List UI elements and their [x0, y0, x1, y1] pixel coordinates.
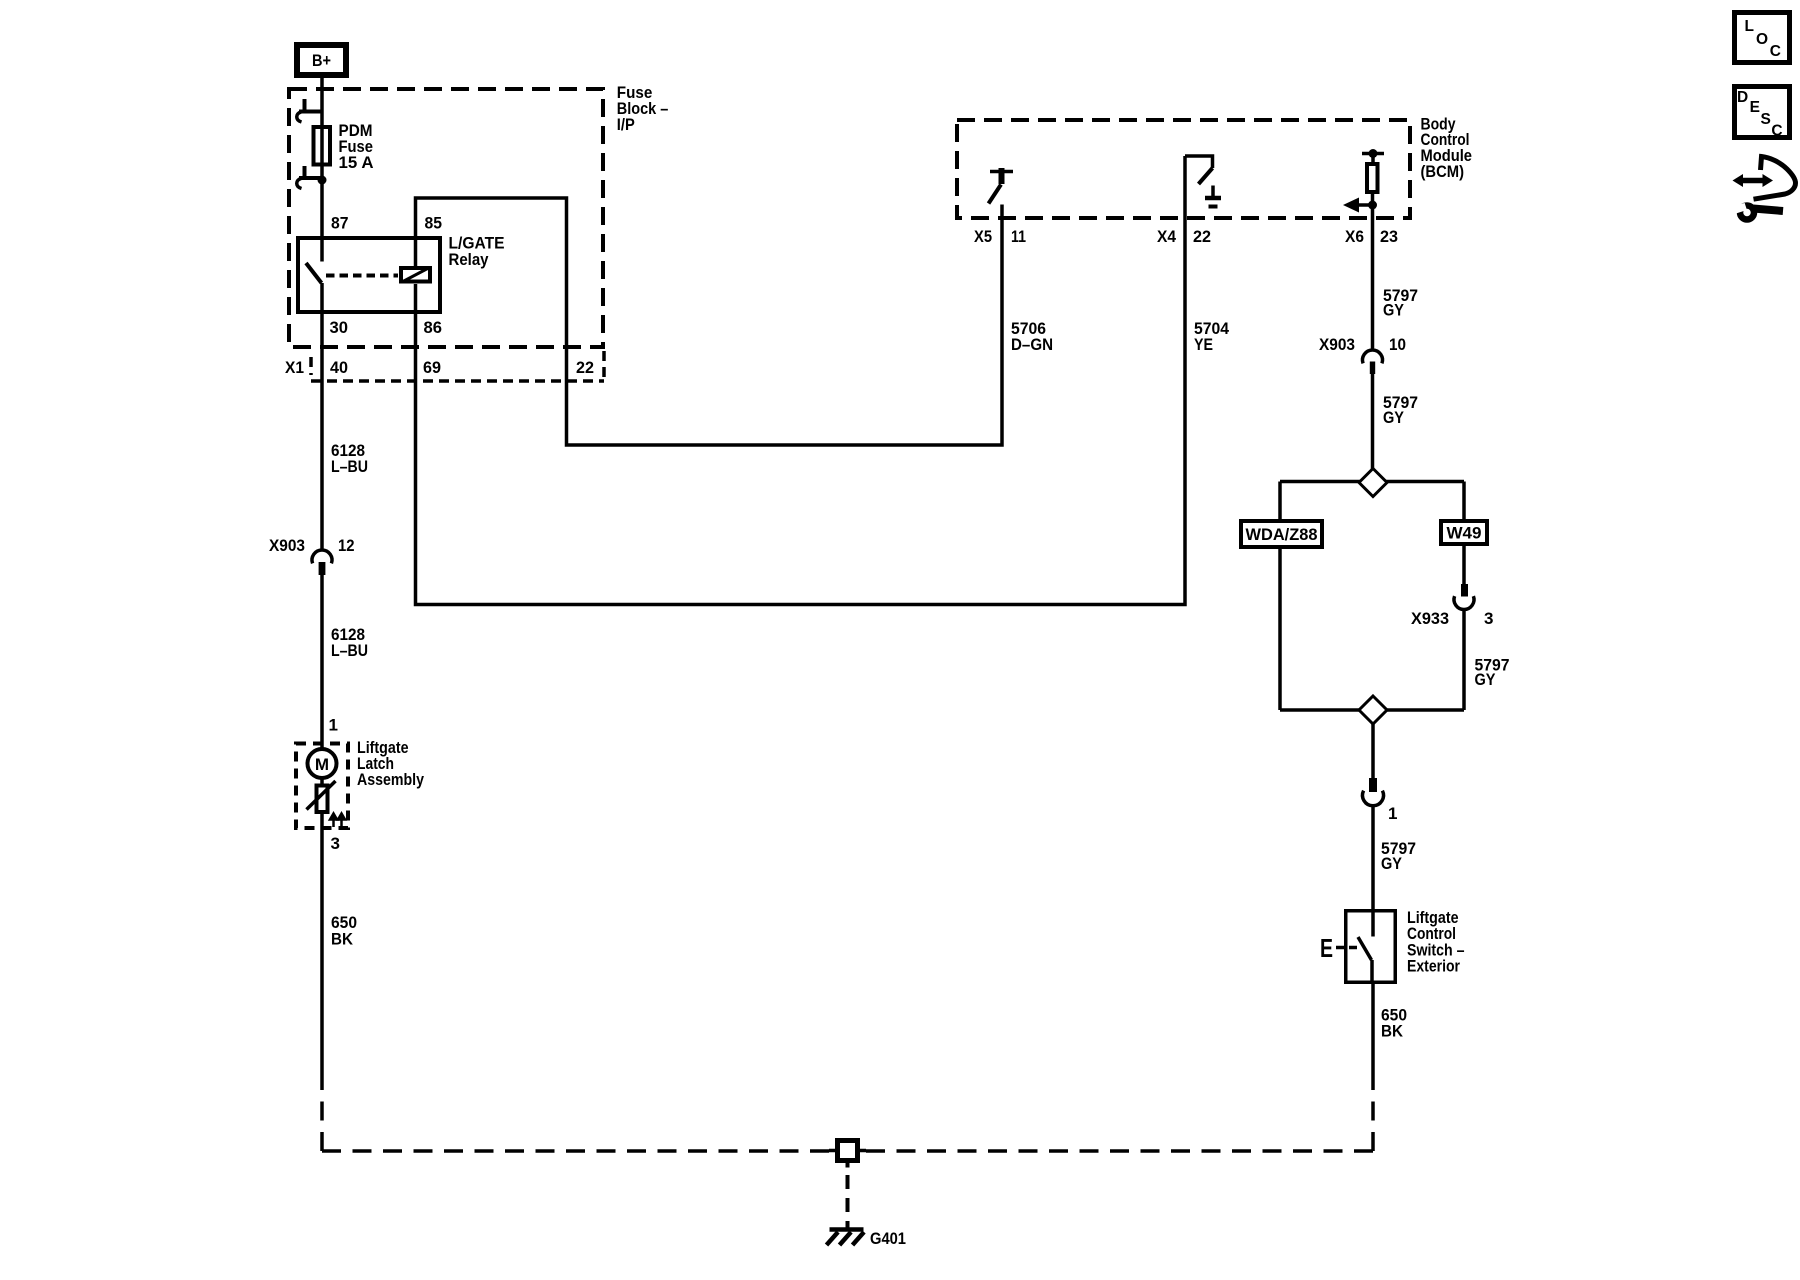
svg-text:87: 87: [331, 214, 349, 233]
svg-text:D: D: [1737, 89, 1748, 106]
svg-text:GY: GY: [1381, 854, 1403, 873]
svg-text:BK: BK: [1381, 1022, 1404, 1041]
svg-text:X903: X903: [1319, 335, 1355, 354]
svg-text:L–BU: L–BU: [331, 457, 368, 476]
svg-text:BK: BK: [331, 930, 354, 949]
svg-text:3: 3: [1484, 609, 1493, 628]
svg-text:(BCM): (BCM): [1421, 162, 1465, 181]
svg-text:M: M: [315, 755, 329, 774]
svg-text:Exterior: Exterior: [1407, 957, 1460, 976]
svg-text:85: 85: [425, 214, 443, 233]
svg-text:B+: B+: [312, 51, 331, 70]
svg-text:22: 22: [1193, 227, 1211, 246]
svg-text:X1: X1: [285, 358, 304, 377]
svg-text:69: 69: [423, 358, 441, 377]
svg-text:YE: YE: [1194, 335, 1213, 354]
svg-text:D–GN: D–GN: [1011, 335, 1053, 354]
svg-text:WDA/Z88: WDA/Z88: [1246, 525, 1318, 544]
svg-text:Relay: Relay: [449, 250, 489, 269]
svg-text:G401: G401: [870, 1229, 906, 1248]
svg-text:15 A: 15 A: [339, 153, 374, 172]
svg-text:GY: GY: [1383, 408, 1405, 427]
svg-text:E: E: [1320, 933, 1333, 963]
svg-text:W49: W49: [1447, 524, 1482, 543]
svg-text:S: S: [1761, 111, 1771, 128]
svg-text:12: 12: [338, 536, 355, 555]
svg-text:E: E: [1750, 99, 1760, 116]
svg-text:40: 40: [330, 358, 348, 377]
svg-text:C: C: [1770, 43, 1781, 60]
svg-text:L–BU: L–BU: [331, 641, 368, 660]
svg-text:Assembly: Assembly: [357, 770, 424, 789]
svg-text:11: 11: [1011, 227, 1026, 246]
svg-text:I/P: I/P: [617, 115, 635, 134]
svg-text:GY: GY: [1475, 670, 1497, 689]
svg-text:3: 3: [331, 834, 340, 853]
svg-text:X5: X5: [974, 227, 992, 246]
svg-text:X933: X933: [1411, 609, 1449, 628]
svg-text:GY: GY: [1383, 301, 1405, 320]
svg-text:X4: X4: [1157, 227, 1176, 246]
svg-text:X6: X6: [1345, 227, 1364, 246]
svg-text:1: 1: [329, 716, 338, 735]
svg-text:X903: X903: [269, 536, 305, 555]
svg-text:30: 30: [330, 318, 349, 337]
svg-text:1: 1: [1388, 804, 1397, 823]
svg-text:L: L: [1745, 18, 1754, 35]
svg-text:22: 22: [576, 358, 594, 377]
svg-text:23: 23: [1380, 227, 1398, 246]
svg-text:86: 86: [424, 318, 443, 337]
svg-text:O: O: [1756, 31, 1768, 48]
svg-text:C: C: [1771, 123, 1782, 140]
svg-text:10: 10: [1389, 335, 1406, 354]
